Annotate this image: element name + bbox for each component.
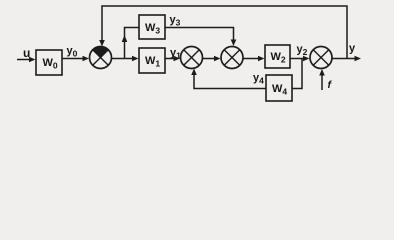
node y2 label <box>297 44 308 58</box>
wire tap down from y2 into W4 input <box>292 59 302 89</box>
wire output arrow from S4 <box>332 56 361 62</box>
node y1 label <box>170 47 181 61</box>
wire W4 feedback into S2 <box>191 69 266 89</box>
block W4 <box>266 75 292 101</box>
node y4 label <box>253 72 264 86</box>
summing junction S4 <box>310 47 332 69</box>
block W3 <box>139 15 165 39</box>
wire W1 to summing junction S2 <box>165 56 180 62</box>
summing junction S3 <box>221 47 243 69</box>
block W1 <box>139 48 165 73</box>
wire S1 to W1 <box>112 56 139 62</box>
wire S3 to W2 <box>243 56 265 62</box>
wire y3 feedforward from W3 into S3 <box>165 28 236 47</box>
node y0 label <box>67 45 78 59</box>
wire f input arrow into S4 <box>319 69 325 90</box>
block W0 <box>36 50 62 75</box>
wire tap up to W3 input <box>122 28 139 59</box>
wire input arrow into W0 <box>17 57 36 63</box>
summing junction S1 (shaded top sector) <box>90 46 112 68</box>
output y label <box>349 43 356 55</box>
wire top feedback from output down into S1 <box>99 6 347 59</box>
wire W2 to summing junction S4 <box>290 56 310 62</box>
wire S2 to summing junction S3 <box>203 56 221 62</box>
svg-text:y: y <box>349 43 356 55</box>
block W2 <box>265 45 290 68</box>
node y3 label <box>170 14 181 28</box>
summing junction S2 <box>181 47 203 69</box>
input u label <box>23 46 30 60</box>
wire W0 to summing junction S1 <box>62 56 89 62</box>
input f label <box>328 79 333 91</box>
